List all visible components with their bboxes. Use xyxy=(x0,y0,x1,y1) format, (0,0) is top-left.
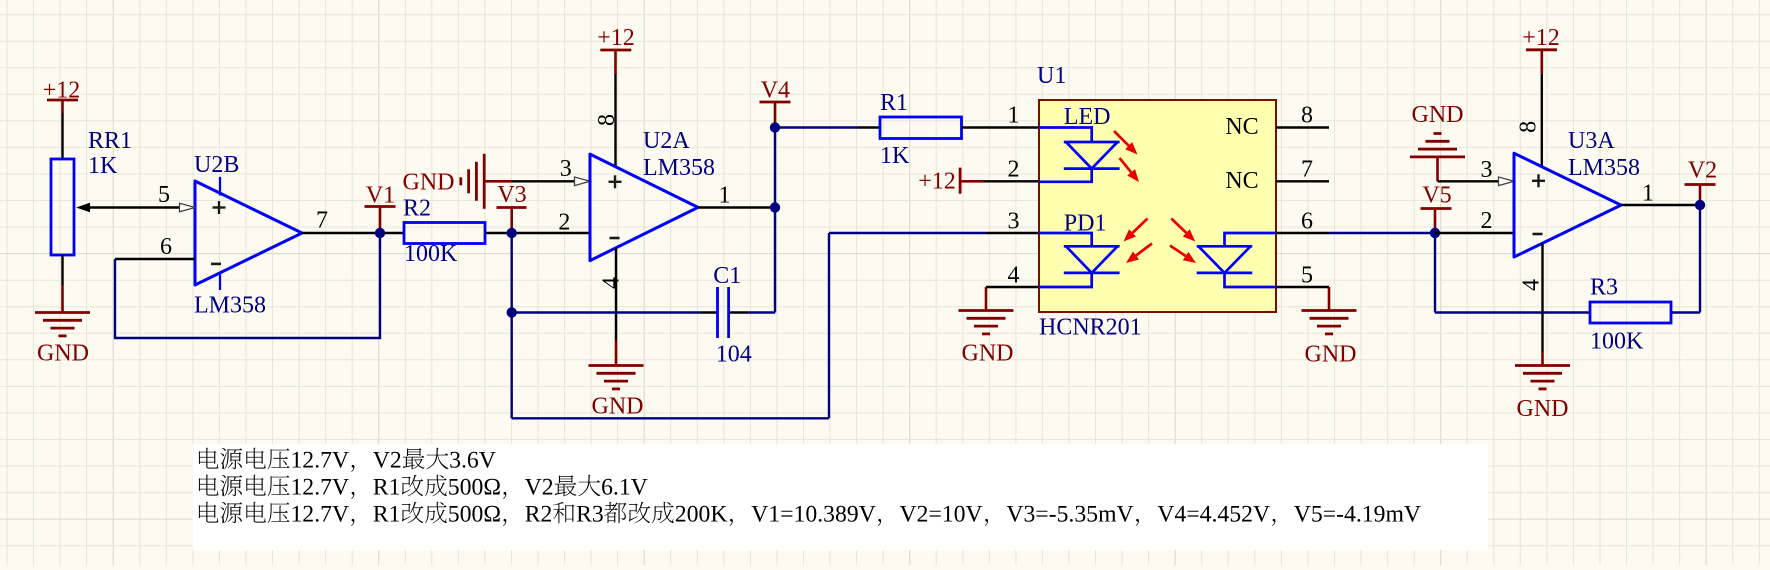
ground GND (left) xyxy=(35,285,90,366)
node V5 junction xyxy=(1430,228,1440,238)
svg-text:1K: 1K xyxy=(88,153,118,179)
ground GND (U1 pin 4) xyxy=(959,287,1014,366)
pin 7 U2B output wire xyxy=(302,208,404,234)
wire bottom rail xyxy=(512,417,829,419)
svg-text:1: 1 xyxy=(719,182,731,208)
svg-text:U3A: U3A xyxy=(1568,128,1615,154)
svg-text:100K: 100K xyxy=(1590,328,1644,354)
pin 8 U1 wire xyxy=(1276,126,1329,128)
resistor RR1 1K potentiometer xyxy=(51,128,180,255)
node V3 junction xyxy=(507,228,517,238)
svg-text:100K: 100K xyxy=(404,241,458,267)
svg-text:GND: GND xyxy=(592,393,644,419)
node V4 junction xyxy=(770,122,780,132)
svg-text:8: 8 xyxy=(594,114,620,126)
svg-text:LM358: LM358 xyxy=(1568,155,1640,181)
wire to U1 pin 3 xyxy=(829,232,986,234)
svg-text:7: 7 xyxy=(316,208,328,234)
node U2A out junction xyxy=(770,202,780,212)
pin 3 U1 wire xyxy=(986,232,1039,234)
svg-text:7: 7 xyxy=(1301,156,1313,182)
svg-text:GND: GND xyxy=(1305,341,1357,367)
background grid xyxy=(6,0,8,565)
svg-text:V3: V3 xyxy=(497,182,526,208)
wire V2 node down to R3 xyxy=(1699,205,1701,313)
svg-text:V2: V2 xyxy=(1688,157,1717,183)
note line 3 xyxy=(199,502,1421,526)
svg-text:R1: R1 xyxy=(880,90,908,116)
svg-text:GND: GND xyxy=(1412,102,1464,128)
node C1 branch junction xyxy=(507,307,517,317)
pin 3 U2A wire xyxy=(512,156,590,186)
svg-text:U1: U1 xyxy=(1037,63,1066,89)
pin 2 U3A wire xyxy=(1435,208,1514,234)
svg-text:HCNR201: HCNR201 xyxy=(1039,315,1142,341)
net label V3 power port xyxy=(497,182,527,230)
LED diode symbol xyxy=(1039,128,1120,182)
pin 5 U2B xyxy=(158,182,195,212)
resistor R1 1K xyxy=(880,90,962,169)
pin 1 U3A output wire xyxy=(1621,180,1700,206)
wire node to C1 xyxy=(512,311,700,313)
svg-text:4: 4 xyxy=(1518,279,1544,291)
node V1 junction xyxy=(375,228,385,238)
wire U1 pin 6 to V5 node xyxy=(1329,232,1435,234)
pin 4 U3A wire xyxy=(1518,243,1544,352)
node V2 junction xyxy=(1695,200,1705,210)
pin 2 U1 wire xyxy=(984,180,1039,182)
wire +12 to RR1 xyxy=(61,113,63,159)
pin 7 U1 wire xyxy=(1276,180,1329,182)
ground GND flipped (U3A pin 3) xyxy=(1410,102,1465,182)
wire V3 riser to bottom rail xyxy=(511,313,513,419)
svg-text:U2B: U2B xyxy=(194,152,239,178)
svg-text:GND: GND xyxy=(1517,396,1569,422)
pin 4 U2A wire xyxy=(598,248,624,340)
photodiode PD2 symbol (right) xyxy=(1197,233,1276,287)
net label V2 power port xyxy=(1685,157,1718,202)
wire V4 node to R1 xyxy=(775,126,858,128)
resistor R2 100K xyxy=(403,195,485,266)
svg-text:NC: NC xyxy=(1225,168,1258,194)
svg-text:V1: V1 xyxy=(366,182,395,208)
svg-text:R3: R3 xyxy=(1590,274,1618,300)
svg-text:V5: V5 xyxy=(1422,182,1451,208)
svg-text:LM358: LM358 xyxy=(643,155,715,181)
net label V5 power port xyxy=(1421,182,1452,230)
svg-text:LM358: LM358 xyxy=(194,292,266,318)
svg-text:GND: GND xyxy=(403,170,455,196)
pin 1 U2A output wire xyxy=(698,182,775,208)
svg-text:2: 2 xyxy=(1008,156,1020,182)
svg-text:1: 1 xyxy=(1642,180,1654,206)
capacitor C1 104 xyxy=(713,263,751,368)
svg-text:6: 6 xyxy=(1301,208,1313,234)
svg-text:GND: GND xyxy=(962,340,1014,366)
pin 5 U1 wire xyxy=(1276,286,1329,288)
svg-text:GND: GND xyxy=(37,340,89,366)
ground GND (U2A pin 4) xyxy=(589,340,644,419)
svg-text:RR1: RR1 xyxy=(88,128,132,154)
svg-text:+12: +12 xyxy=(918,169,956,195)
net label V4 power port xyxy=(760,77,791,124)
svg-text:6: 6 xyxy=(160,234,172,260)
LED emission arrows xyxy=(1114,131,1129,146)
svg-text:8: 8 xyxy=(1515,121,1541,133)
wire V4 riser xyxy=(774,128,776,313)
svg-text:3: 3 xyxy=(1481,157,1493,183)
pin 8 U2A wire xyxy=(594,74,620,167)
svg-text:2: 2 xyxy=(558,210,570,236)
svg-text:U2A: U2A xyxy=(643,128,690,154)
net label V1 power port xyxy=(365,182,396,230)
PD1 incident arrows xyxy=(1133,219,1148,233)
svg-text:+12: +12 xyxy=(597,25,635,51)
optocoupler U1 HCNR201 body xyxy=(1037,63,1276,341)
svg-text:5: 5 xyxy=(158,182,170,208)
pin 8 U3A wire xyxy=(1515,74,1542,167)
power +12 port (left) xyxy=(43,77,81,113)
svg-text:3: 3 xyxy=(1008,208,1020,234)
wire R1 to U1 pin 1 xyxy=(962,126,1040,128)
note line 2 xyxy=(199,475,648,499)
svg-text:104: 104 xyxy=(716,342,752,368)
pin 3 U3A wire xyxy=(1438,157,1515,186)
wire riser to U1 pin 3 row xyxy=(828,233,830,418)
svg-text:5: 5 xyxy=(1301,262,1313,288)
svg-text:1: 1 xyxy=(1008,102,1020,128)
resistor R3 100K xyxy=(1590,274,1671,354)
op-amp U2A LM358 xyxy=(590,128,715,261)
power +12 port (U1 pin 2) xyxy=(918,168,984,195)
svg-text:V4: V4 xyxy=(761,77,790,103)
op-amp U3A LM358 xyxy=(1514,128,1640,257)
power +12 port (middle) xyxy=(597,25,635,74)
pin 4 U1 wire xyxy=(986,286,1039,288)
svg-text:2: 2 xyxy=(1481,208,1493,234)
wire R2 to U2A pin 2 xyxy=(485,232,590,234)
PD2 incident arrows xyxy=(1171,219,1186,233)
note line 1 xyxy=(199,448,496,472)
feedback wire R3 to V5 node xyxy=(1435,311,1590,313)
wire C1 to V4 riser xyxy=(730,311,748,313)
feedback wire U2B output to pin 6 xyxy=(115,233,380,338)
svg-text:3: 3 xyxy=(560,156,572,182)
text frame background xyxy=(193,444,1488,550)
svg-text:R2: R2 xyxy=(403,195,431,221)
svg-text:C1: C1 xyxy=(713,263,741,289)
svg-text:8: 8 xyxy=(1301,102,1313,128)
ground GND (U1 pin 5) xyxy=(1302,287,1357,367)
svg-text:4: 4 xyxy=(1008,262,1020,288)
svg-text:4: 4 xyxy=(598,277,624,289)
pin 6 U2B wire xyxy=(115,234,195,260)
op-amp U2B LM358 xyxy=(194,152,302,318)
svg-text:1K: 1K xyxy=(880,143,910,169)
svg-text:+12: +12 xyxy=(1522,25,1560,51)
photodiode PD1 symbol xyxy=(1039,233,1120,287)
wire V3 riser down to C1 row xyxy=(511,233,513,313)
power +12 port (right) xyxy=(1522,25,1560,74)
wire RR1 to GND xyxy=(61,255,63,285)
svg-text:NC: NC xyxy=(1225,114,1258,140)
pin 6 U1 wire xyxy=(1276,232,1329,234)
ground GND (U3A pin 4) xyxy=(1515,352,1570,422)
ground GND rotated (U2A pin 3) xyxy=(403,154,513,209)
